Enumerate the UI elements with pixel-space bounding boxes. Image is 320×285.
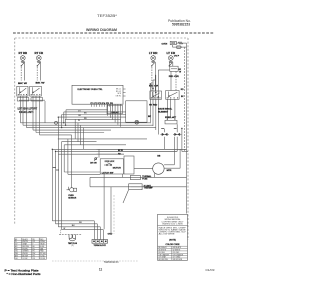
tags on bottom runs xyxy=(63,222,82,230)
surface unit receptacle connector 2 xyxy=(31,98,43,101)
svg-text:TEF352B*: TEF352B* xyxy=(97,14,118,18)
svg-text:W RD: W RD xyxy=(149,105,158,107)
svg-text:P = Test Housing Plate: P = Test Housing Plate xyxy=(5,268,40,272)
bottom runs to terminal block xyxy=(52,221,103,240)
svg-text:BK: BK xyxy=(148,116,152,118)
surface unit receptacle connector 1 xyxy=(17,98,29,101)
rows into box A xyxy=(64,172,100,174)
svg-text:OR BK: OR BK xyxy=(40,258,46,260)
console dashed outline left xyxy=(14,38,16,225)
svg-text:5995382153: 5995382153 xyxy=(172,22,190,26)
test plug feed wire xyxy=(59,234,82,236)
box B latch xyxy=(124,156,134,174)
surface unit signal light L2 xyxy=(36,55,41,60)
svg-text:LT RR: LT RR xyxy=(149,52,158,55)
receptacle drops to mesh xyxy=(21,101,46,135)
svg-text:GY BK: GY BK xyxy=(22,258,28,260)
svg-text:ELEMENT: ELEMENT xyxy=(158,112,169,114)
switch contact under light L3 xyxy=(151,60,155,66)
junction dots right bundle xyxy=(150,83,183,129)
lower wire with plug symbol xyxy=(173,46,187,48)
bake element HE2 xyxy=(175,133,180,136)
oven light switch box xyxy=(170,41,176,44)
notes title xyxy=(164,217,180,221)
svg-text:(P): (P) xyxy=(71,245,74,247)
door switch feed xyxy=(98,149,100,157)
surface unit signal light L1 xyxy=(20,55,25,60)
svg-text:COLOR CODE: COLOR CODE xyxy=(166,244,181,246)
svg-text:W: W xyxy=(63,228,65,230)
limiter box under L4 xyxy=(170,66,178,71)
svg-text:BK W: BK W xyxy=(118,150,123,152)
svg-text:MTR: MTR xyxy=(167,170,172,172)
clock box bottom pin ticks xyxy=(92,104,113,107)
oven feed wires xyxy=(97,129,189,155)
lower component wire xyxy=(111,186,187,188)
svg-text:GND: GND xyxy=(108,234,113,236)
console dashed outline top xyxy=(15,37,188,39)
ladder wire tags xyxy=(78,110,87,122)
relay K1 coil xyxy=(165,117,177,124)
svg-text:WIRING MATERIAL: WIRING MATERIAL xyxy=(164,218,180,221)
svg-text:BK W: BK W xyxy=(18,83,28,85)
switch contact under light L2 xyxy=(37,60,41,66)
svg-text:TERM BLOCK: TERM BLOCK xyxy=(94,245,107,247)
junction dots mesh xyxy=(52,116,67,152)
svg-text:BR BROWN: BR BROWN xyxy=(173,259,183,261)
oven lamp in box C xyxy=(135,120,139,124)
test plug coil symbols xyxy=(69,235,76,241)
infinite switch box S4 xyxy=(166,91,179,100)
surface unit signal light L4 xyxy=(168,55,173,60)
right wire vertical from lamp circuit xyxy=(186,43,188,151)
electronic oven control box U1 xyxy=(72,85,123,104)
infinite switch box S3 xyxy=(150,91,162,99)
hi-limit box xyxy=(129,184,142,190)
box C oven compartment xyxy=(126,101,147,122)
svg-text:RD OR: RD OR xyxy=(169,76,180,78)
clock box right pin stubs xyxy=(123,89,126,96)
wire color code table xyxy=(14,238,46,259)
infinite switch box S2 xyxy=(30,86,42,96)
ladder left-end drops xyxy=(58,110,83,154)
color table text xyxy=(15,238,46,260)
notes box xyxy=(158,214,188,260)
wires below S3 S4 down to oven area xyxy=(150,70,175,135)
plug symbol on lower wire xyxy=(177,46,182,48)
svg-text:OVEN: OVEN xyxy=(162,43,168,45)
svg-text:ELECTRONIC OVEN CTRL: ELECTRONIC OVEN CTRL xyxy=(78,89,104,91)
svg-text:RT RR: RT RR xyxy=(19,52,28,55)
svg-text:11: 11 xyxy=(99,267,103,271)
thermal fuse F1 xyxy=(130,175,140,179)
wires dropping from control box pins xyxy=(108,104,121,127)
bottom dashed rule xyxy=(52,260,138,262)
svg-text:ALLOW WIRE: ALLOW WIRE xyxy=(159,233,176,236)
svg-text:OR H1: OR H1 xyxy=(116,96,122,98)
svg-text:OV P: OV P xyxy=(174,55,180,57)
door lock contacts xyxy=(104,163,112,166)
wires L3 down xyxy=(152,62,176,91)
junction ticks above elements xyxy=(161,128,176,130)
svg-text:BR BROWN: BR BROWN xyxy=(159,259,169,261)
notes rule xyxy=(158,225,188,227)
svg-text:MOTOR: MOTOR xyxy=(113,167,122,169)
svg-text:SENSOR: SENSOR xyxy=(68,197,77,199)
svg-text:RATED 105 C MIN: RATED 105 C MIN xyxy=(163,223,184,226)
infinite switch box S1 xyxy=(17,86,28,96)
long verticals to bottom xyxy=(52,135,71,230)
right vertical wires lower xyxy=(104,152,186,234)
relay sub-box xyxy=(107,105,122,114)
svg-text:DR SW: DR SW xyxy=(90,163,97,165)
svg-text:DOOR LOCK: DOOR LOCK xyxy=(105,161,115,163)
oven lamp symbol xyxy=(178,42,183,44)
svg-text:RELAY: RELAY xyxy=(111,111,119,114)
svg-text:BK W: BK W xyxy=(36,83,46,85)
wires from elements down xyxy=(165,124,178,151)
clock box right pin labels xyxy=(116,88,122,97)
terminal block TB xyxy=(92,240,108,244)
broil element HE1 xyxy=(162,133,167,136)
svg-text:WIRING DIAGRAM: WIRING DIAGRAM xyxy=(86,28,117,32)
svg-text:W: W xyxy=(78,120,80,122)
connector circle on mesh row xyxy=(55,121,58,124)
wires from lights L1 L2 down xyxy=(21,62,40,81)
notes paragraph xyxy=(159,226,187,235)
thermal fuse wire xyxy=(90,176,187,178)
switch contact under light L4 xyxy=(169,60,173,66)
convection motor M1 xyxy=(153,163,164,174)
svg-text:FUSE: FUSE xyxy=(142,179,148,181)
dashed drop to test plug wire xyxy=(60,230,62,235)
motor wires xyxy=(134,137,180,178)
wire number ticks on long verticals xyxy=(53,168,59,171)
wire ladder below control box xyxy=(58,110,125,120)
wire from switch to lamp xyxy=(176,42,186,44)
heavy top dashed rule xyxy=(13,32,214,34)
dashed vertical to terminal area xyxy=(113,195,115,234)
svg-text:BAKE BROIL: BAKE BROIL xyxy=(158,108,173,111)
plug connector P1 xyxy=(67,187,77,192)
door lock box xyxy=(100,159,123,174)
svg-text:01/03: 01/03 xyxy=(206,268,215,272)
svg-text:(NOTE): (NOTE) xyxy=(169,240,176,242)
door switch symbol xyxy=(94,157,97,161)
svg-text:W: W xyxy=(179,72,181,74)
left group crossing wires xyxy=(19,99,45,101)
switch contact under light L1 xyxy=(21,60,25,66)
svg-text:RT FR: RT FR xyxy=(35,52,44,55)
wire mesh rows left-center xyxy=(21,123,187,154)
svg-text:5995382153: 5995382153 xyxy=(104,262,119,264)
terminal block cell dots xyxy=(93,241,106,242)
console dashed outline right xyxy=(187,38,189,240)
surface unit signal light L3 xyxy=(151,55,156,60)
wires below switch boxes S1 S2 to receptacles xyxy=(21,96,40,98)
svg-text:* = Non-Illustrated Parts: * = Non-Illustrated Parts xyxy=(7,272,42,276)
svg-text:LATCH SW: LATCH SW xyxy=(102,172,114,175)
